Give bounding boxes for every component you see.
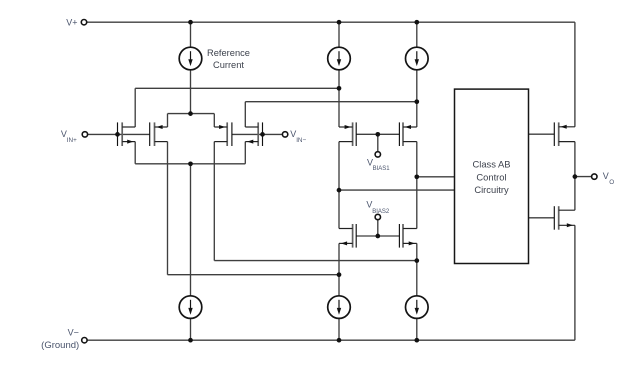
svg-text:O: O <box>609 179 614 186</box>
svg-text:IN+: IN+ <box>67 137 77 144</box>
svg-text:Class AB: Class AB <box>472 159 510 170</box>
svg-text:V−: V− <box>68 327 79 337</box>
svg-text:Reference: Reference <box>207 48 250 58</box>
svg-text:IN−: IN− <box>296 137 306 144</box>
svg-text:BIAS2: BIAS2 <box>372 209 390 215</box>
svg-text:V+: V+ <box>66 17 77 27</box>
svg-text:Control: Control <box>476 171 506 182</box>
svg-text:(Ground): (Ground) <box>41 340 79 351</box>
svg-text:BIAS1: BIAS1 <box>373 166 391 172</box>
svg-text:V: V <box>366 199 372 209</box>
svg-text:Circuitry: Circuitry <box>474 184 509 195</box>
svg-text:Current: Current <box>213 60 244 70</box>
svg-text:V: V <box>603 171 609 181</box>
